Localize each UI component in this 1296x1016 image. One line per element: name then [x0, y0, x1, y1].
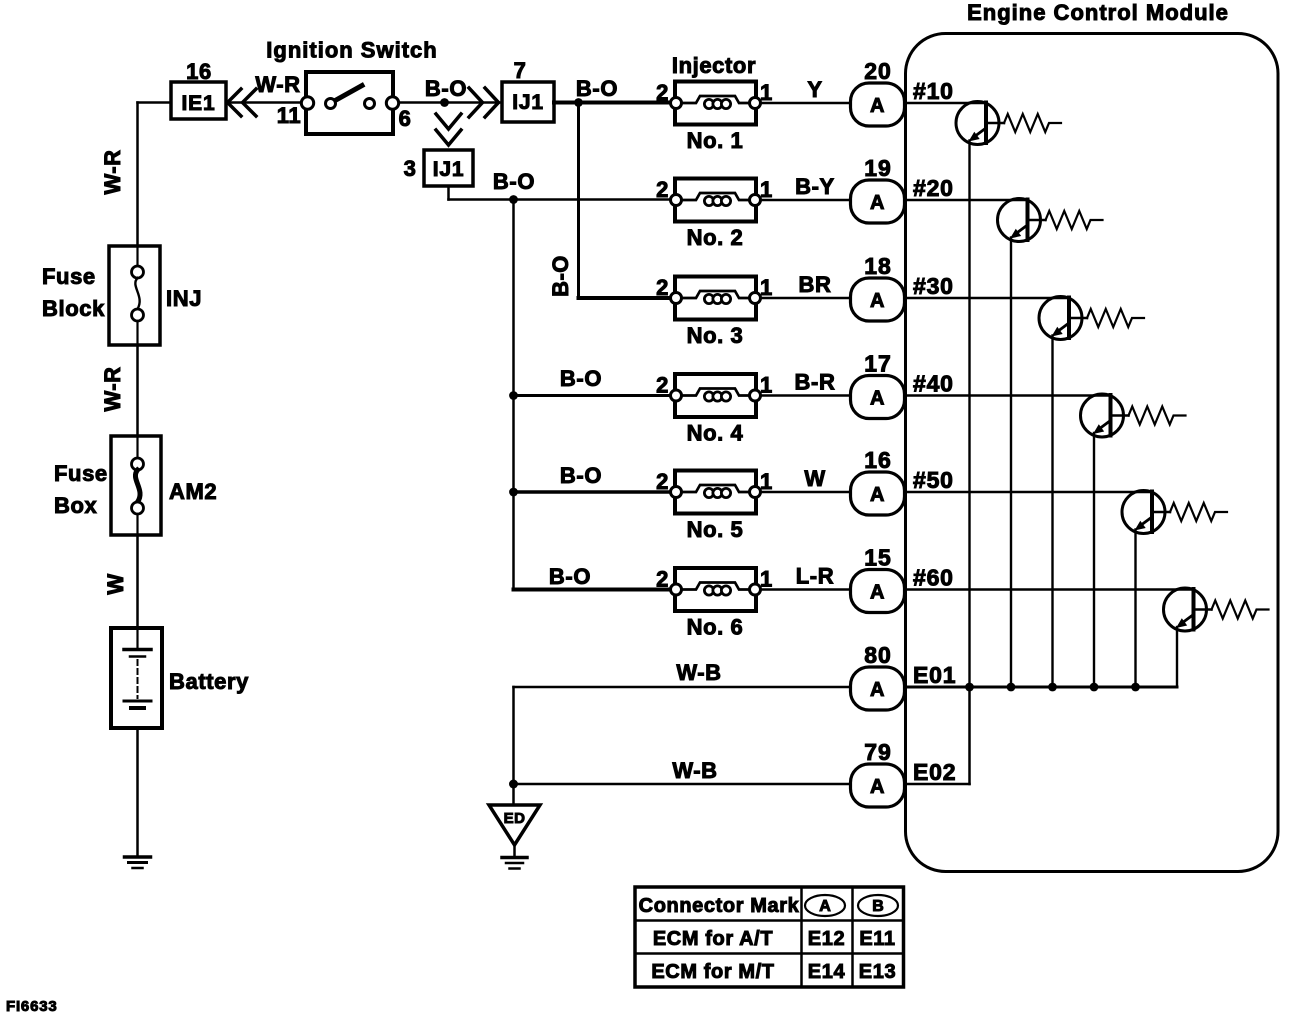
svg-text:7: 7 [514, 58, 527, 83]
svg-text:INJ: INJ [166, 286, 202, 311]
svg-text:Connector Mark: Connector Mark [639, 895, 800, 917]
svg-text:No. 3: No. 3 [687, 323, 744, 348]
svg-text:B-O: B-O [425, 76, 467, 101]
svg-text:No. 1: No. 1 [687, 128, 744, 153]
svg-text:1: 1 [760, 469, 773, 494]
svg-text:#30: #30 [913, 273, 954, 299]
svg-text:1: 1 [760, 567, 773, 592]
svg-text:Battery: Battery [169, 669, 249, 694]
svg-text:Fuse: Fuse [54, 461, 108, 486]
svg-text:B-O: B-O [493, 169, 535, 194]
svg-text:Engine Control Module: Engine Control Module [967, 0, 1229, 25]
svg-text:E01: E01 [913, 662, 956, 688]
svg-text:W-R: W-R [255, 72, 300, 97]
svg-text:B-O: B-O [560, 463, 602, 488]
svg-text:A: A [870, 582, 885, 604]
svg-text:18: 18 [864, 253, 892, 279]
svg-text:A: A [870, 192, 885, 214]
svg-text:E12: E12 [808, 928, 845, 950]
svg-text:ECM for M/T: ECM for M/T [651, 961, 774, 983]
svg-text:IE1: IE1 [182, 92, 216, 115]
svg-text:W-B: W-B [672, 758, 717, 783]
svg-text:No. 2: No. 2 [687, 225, 744, 250]
svg-text:W-R: W-R [100, 366, 125, 411]
svg-text:20: 20 [864, 58, 892, 84]
svg-text:Fuse: Fuse [42, 264, 96, 289]
svg-text:B-O: B-O [560, 366, 602, 391]
svg-text:ED: ED [504, 810, 526, 827]
svg-text:79: 79 [864, 739, 892, 765]
svg-text:3: 3 [404, 156, 417, 181]
svg-text:A: A [819, 898, 831, 915]
svg-text:2: 2 [656, 177, 669, 202]
svg-text:#40: #40 [913, 371, 954, 397]
svg-text:E11: E11 [859, 928, 895, 950]
svg-text:1: 1 [760, 80, 773, 105]
svg-text:6: 6 [399, 106, 412, 131]
svg-text:B-Y: B-Y [795, 174, 835, 199]
svg-text:W: W [103, 573, 128, 594]
svg-text:Injector: Injector [672, 53, 756, 78]
svg-text:Ignition Switch: Ignition Switch [266, 38, 437, 63]
svg-text:15: 15 [864, 545, 892, 571]
svg-text:16: 16 [864, 447, 892, 473]
svg-text:E02: E02 [913, 759, 956, 785]
svg-text:2: 2 [656, 373, 669, 398]
svg-text:IJ1: IJ1 [512, 91, 544, 114]
svg-text:No. 4: No. 4 [687, 421, 744, 446]
svg-text:2: 2 [656, 80, 669, 105]
svg-text:19: 19 [864, 155, 892, 181]
svg-text:#10: #10 [913, 78, 954, 104]
svg-text:2: 2 [656, 567, 669, 592]
svg-text:E13: E13 [859, 961, 896, 983]
svg-text:Box: Box [54, 493, 98, 518]
svg-text:W: W [804, 466, 825, 491]
svg-text:A: A [870, 388, 885, 410]
svg-text:1: 1 [760, 373, 773, 398]
svg-text:17: 17 [864, 351, 892, 377]
svg-text:AM2: AM2 [169, 479, 217, 504]
svg-text:1: 1 [760, 177, 773, 202]
svg-text:B-R: B-R [795, 370, 836, 395]
svg-text:1: 1 [760, 275, 773, 300]
svg-text:Block: Block [42, 296, 105, 321]
svg-text:11: 11 [277, 103, 301, 128]
svg-text:Y: Y [807, 77, 822, 102]
svg-text:A: A [870, 95, 885, 117]
svg-text:B-O: B-O [548, 255, 573, 297]
svg-text:L-R: L-R [796, 564, 834, 589]
svg-text:A: A [870, 679, 885, 701]
svg-text:A: A [870, 484, 885, 506]
svg-text:ECM for A/T: ECM for A/T [653, 928, 773, 950]
svg-text:#50: #50 [913, 467, 954, 493]
svg-text:W-R: W-R [100, 149, 125, 194]
svg-text:B: B [872, 898, 884, 915]
svg-text:No. 5: No. 5 [687, 517, 744, 542]
svg-text:B-O: B-O [576, 76, 618, 101]
svg-text:2: 2 [656, 469, 669, 494]
svg-text:80: 80 [864, 642, 892, 668]
svg-text:A: A [870, 290, 885, 312]
svg-text:#20: #20 [913, 175, 954, 201]
svg-text:E14: E14 [808, 961, 846, 983]
svg-text:2: 2 [656, 275, 669, 300]
svg-text:A: A [870, 776, 885, 798]
svg-text:No. 6: No. 6 [687, 615, 744, 640]
svg-text:BR: BR [799, 272, 832, 297]
svg-text:W-B: W-B [676, 660, 721, 685]
svg-text:IJ1: IJ1 [433, 158, 465, 181]
svg-text:#60: #60 [913, 565, 954, 591]
svg-text:B-O: B-O [549, 564, 591, 589]
svg-text:FI6633: FI6633 [6, 998, 58, 1015]
